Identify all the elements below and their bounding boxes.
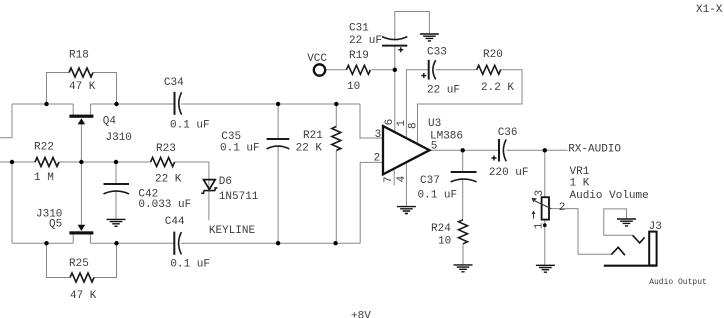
wire op-amp pin 6 supply (394, 70, 396, 132)
junction node R25 right (114, 241, 118, 245)
svg-text:VR1: VR1 (570, 166, 590, 178)
wire pin 1 to C33 (406, 70, 428, 138)
wire jack ring run (604, 234, 633, 236)
wire C31 stem and top loop (395, 12, 430, 70)
junction node output VR1 (543, 148, 547, 152)
wire Q4 drain-source leads (73, 104, 90, 115)
svg-text:VCC: VCC (307, 53, 327, 65)
svg-text:R18: R18 (69, 50, 89, 62)
ground R24 (454, 265, 473, 272)
svg-text:J3: J3 (649, 221, 662, 233)
wire left-edge stub upper (0, 104, 12, 138)
svg-text:X1-X: X1-X (696, 4, 723, 16)
svg-text:47 K: 47 K (70, 290, 97, 302)
svg-text:1N5711: 1N5711 (219, 191, 259, 203)
svg-text:2.2 K: 2.2 K (481, 82, 514, 94)
svg-text:R24: R24 (431, 223, 451, 235)
svg-text:3: 3 (375, 129, 382, 141)
svg-text:22 uF: 22 uF (427, 85, 460, 97)
wire main top rail y=104 left segment (12, 103, 73, 105)
junction node R25 left (44, 241, 48, 245)
diode D6 1N5711 schottky (201, 180, 217, 194)
svg-text:R25: R25 (69, 258, 89, 270)
svg-text:D6: D6 (219, 176, 232, 188)
capacitor C35 (267, 139, 290, 149)
wire C35 branch (277, 104, 279, 243)
svg-text:2: 2 (374, 153, 381, 165)
resistor R23 (151, 158, 175, 167)
capacitor C44 (174, 232, 181, 255)
junction node VCC-C31 (393, 68, 397, 72)
svg-text:22 K: 22 K (155, 174, 182, 186)
wire left rail down (11, 162, 13, 243)
wire output pin 5 to C36 (430, 149, 499, 151)
potentiometer VR1 (532, 197, 552, 227)
wire R20 return to pin 8 (418, 70, 523, 145)
transistor Q4 J310 JFET (69, 115, 93, 125)
ground C31 (420, 34, 439, 41)
junction node output C37 (461, 148, 465, 152)
wire R22 to R23 (59, 161, 151, 163)
wire jack ring ground loop (604, 209, 627, 235)
transistor Q5 J310 JFET (69, 225, 93, 235)
svg-text:Audio Volume: Audio Volume (570, 190, 649, 202)
svg-text:5: 5 (431, 141, 438, 153)
svg-text:RX-AUDIO: RX-AUDIO (568, 144, 621, 156)
svg-text:0.1 uF: 0.1 uF (170, 259, 210, 271)
svg-text:4: 4 (396, 175, 408, 182)
svg-text:1 K: 1 K (570, 178, 590, 190)
svg-text:R19: R19 (349, 50, 369, 62)
junction node C35 bottom (276, 241, 280, 245)
junction node gate rail (79, 160, 83, 164)
svg-text:R21: R21 (303, 130, 323, 142)
wire op-amp pin 7 stub (393, 168, 395, 185)
svg-text:2: 2 (559, 202, 566, 214)
resistor R25 (70, 273, 94, 282)
junction node R21 bottom (333, 241, 337, 245)
svg-text:22 uF: 22 uF (349, 35, 382, 47)
svg-text:8: 8 (407, 122, 419, 129)
wire R19 to node (372, 69, 395, 71)
svg-text:Audio Output: Audio Output (649, 278, 707, 287)
junction node at R18 left (44, 102, 48, 106)
svg-text:+8V: +8V (351, 311, 371, 318)
resistor R24 (459, 220, 468, 244)
junction node C42-R23 (114, 160, 118, 164)
svg-text:Q4: Q4 (103, 116, 117, 128)
svg-text:C31: C31 (349, 23, 369, 35)
wire R25 loop (47, 243, 117, 277)
svg-text:C36: C36 (498, 127, 518, 139)
svg-text:1: 1 (534, 222, 546, 229)
wire bottom rail left segments (12, 242, 174, 244)
resistor R21 (332, 127, 341, 151)
wire R24 to ground (462, 244, 464, 265)
svg-text:C34: C34 (164, 77, 184, 89)
svg-text:0.1 uF: 0.1 uF (418, 190, 458, 202)
wire left-edge stub to R22 (0, 161, 35, 163)
svg-text:U3: U3 (428, 118, 441, 130)
svg-text:7: 7 (383, 176, 395, 183)
capacitor C37 (451, 172, 477, 182)
wire R21 branch (335, 104, 337, 243)
wire C42 branch (115, 162, 117, 219)
capacitor C34 (175, 92, 182, 115)
svg-text:6: 6 (384, 119, 396, 126)
wire C36 to RX-AUDIO (506, 149, 567, 151)
capacitor C33 polarized (421, 60, 435, 80)
wire Q5 drain-source leads (73, 235, 90, 244)
svg-text:10: 10 (438, 236, 451, 248)
resistor R19 (346, 65, 370, 74)
svg-text:C35: C35 (221, 131, 241, 143)
svg-text:22 K: 22 K (296, 143, 323, 155)
capacitor C36 polarized (492, 139, 507, 162)
wire C33 to R20 (436, 69, 477, 71)
wire VCC to R19 (326, 69, 346, 71)
wire D6 cathode to KEYLINE (208, 191, 210, 221)
wire op-amp pin 4 to ground (405, 162, 407, 206)
ground J3 ring (617, 219, 636, 226)
ground C42 (107, 219, 126, 226)
svg-text:0.033 uF: 0.033 uF (138, 199, 191, 211)
op-amp U3 LM386 (383, 126, 430, 174)
wire R23 to D6 anode (175, 162, 209, 191)
svg-text:C44: C44 (165, 216, 185, 228)
svg-text:Q5: Q5 (49, 219, 62, 231)
svg-text:R22: R22 (34, 142, 54, 154)
capacitor C42 (104, 184, 130, 194)
wire bottom rail right segment to op-amp pin 2 (181, 162, 383, 243)
svg-text:47 K: 47 K (69, 81, 96, 93)
ground VR1 (536, 265, 555, 272)
wire main top rail y=104 mid segment (91, 103, 174, 105)
svg-text:R20: R20 (483, 49, 503, 61)
svg-text:R23: R23 (156, 143, 176, 155)
ground U3 pin 4 (397, 207, 416, 214)
capacitor C31 polarized (382, 37, 407, 53)
wire to op-amp pin 3 (360, 104, 383, 138)
svg-text:10: 10 (347, 81, 360, 93)
svg-text:0.1 uF: 0.1 uF (220, 143, 260, 155)
svg-text:3: 3 (534, 190, 546, 197)
resistor R22 (35, 158, 59, 167)
wire C37 branch (462, 150, 464, 220)
svg-text:1 M: 1 M (34, 172, 54, 184)
power VCC terminal (314, 64, 325, 75)
junction node left rail R22 (10, 160, 14, 164)
svg-text:C33: C33 (427, 47, 447, 59)
resistor R18 (69, 68, 93, 77)
svg-text:220 uF: 220 uF (489, 167, 529, 179)
wire VR1 branch (544, 150, 546, 264)
wire R18 feedback loop (47, 73, 117, 105)
wire VR1 wiper to jack tip (551, 209, 611, 255)
wire gate rail Q4-Q5 (80, 124, 82, 226)
junction node at R21 top (334, 102, 338, 106)
connector J3 audio jack (604, 232, 657, 266)
svg-text:0.1 uF: 0.1 uF (170, 120, 210, 132)
svg-text:1: 1 (396, 120, 408, 127)
resistor R20 (477, 65, 501, 74)
junction node at R18 right (114, 102, 118, 106)
wire main top rail y=104 right segment (181, 103, 360, 105)
svg-text:KEYLINE: KEYLINE (209, 225, 256, 237)
svg-text:C37: C37 (420, 175, 440, 187)
svg-text:J310: J310 (106, 132, 132, 144)
junction node at C35 top (276, 102, 280, 106)
